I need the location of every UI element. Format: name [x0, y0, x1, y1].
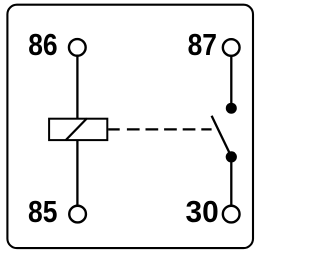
switch lever: [212, 116, 231, 155]
svg-text:87: 87: [188, 27, 217, 62]
dashed actuation line: [127, 128, 212, 130]
svg-text:30: 30: [186, 194, 219, 229]
border frame: [7, 5, 253, 248]
terminal 30: [223, 206, 240, 223]
terminal 87: [223, 39, 240, 56]
wire 87 to contact: [230, 56, 232, 108]
wire 86 to coil: [76, 56, 78, 119]
svg-text:85: 85: [28, 194, 57, 229]
contact dot top: [226, 103, 237, 114]
coil K1: [49, 119, 107, 140]
terminal 85: [69, 206, 86, 223]
terminal 86: [69, 39, 86, 56]
coil slash: [66, 118, 87, 140]
wire coil to 85: [76, 140, 78, 206]
contact dot bottom: [226, 151, 237, 162]
stub from coil: [108, 128, 120, 130]
wire contact to 30: [230, 157, 232, 206]
svg-text:86: 86: [28, 27, 57, 62]
